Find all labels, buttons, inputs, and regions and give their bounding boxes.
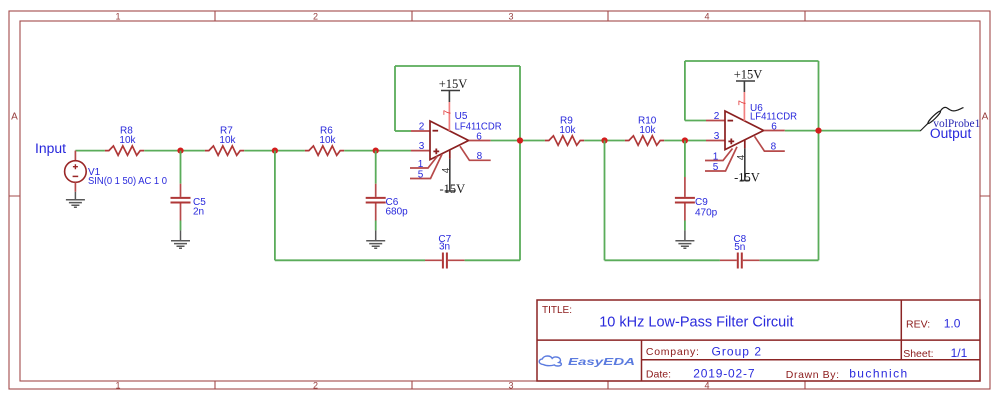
svg-text:Output: Output [930,126,972,141]
svg-text:Company:: Company: [646,346,699,358]
svg-text:Input: Input [35,141,66,156]
svg-text:EasyEDA: EasyEDA [568,356,635,368]
ground under C9 [675,230,694,248]
resistor R7 [205,146,244,155]
U5 pin4 lead [449,150,451,159]
frame row ticks sides [9,195,990,197]
C5 top lead [180,184,182,197]
C9 bottom lead [684,204,686,221]
wire V1 top stub [74,151,76,161]
U5 pin7 lead [448,102,450,131]
svg-text:1: 1 [713,151,719,162]
svg-text:3: 3 [714,131,720,142]
svg-text:5: 5 [713,162,719,173]
resistor R10 [625,136,664,145]
svg-text:470p: 470p [695,208,718,219]
U5 pin1 stub [410,156,438,168]
svg-text:buchnich: buchnich [849,367,907,381]
junction node4 [517,137,523,143]
U6 pin4 lead [744,140,746,148]
U6 plus symbol [728,139,734,145]
C5 bottom lead [180,204,182,221]
capacitor C7 [443,253,447,269]
frame column ticks top [215,11,805,21]
svg-text:7: 7 [442,109,453,115]
svg-text:5: 5 [418,169,424,180]
svg-text:+15V: +15V [734,68,763,82]
svg-text:2019-02-7: 2019-02-7 [693,367,755,381]
EasyEDA logo cloud [539,356,561,366]
capacitor C6 [366,198,386,203]
svg-text:Sheet:: Sheet: [903,348,933,360]
U6 +15V power symbol [736,81,755,92]
U6 feedback wire right vertical [818,61,820,260]
op-amp U6 triangle [725,111,764,150]
U6 pin1 stub [705,149,733,161]
svg-text:10k: 10k [559,125,576,136]
svg-text:Drawn By:: Drawn By: [786,369,839,381]
svg-text:2n: 2n [193,207,204,218]
C6 top lead [375,184,377,197]
wire pin2 U6 [685,120,706,122]
frame column ticks bottom [215,381,805,389]
resistor R8 [105,146,144,155]
resistor R9 [545,136,584,145]
ground under C5 [171,230,190,248]
svg-text:5n: 5n [734,242,745,253]
C9 top lead [684,177,686,197]
U5 -15V power symbol [445,159,455,191]
svg-text:8: 8 [477,151,483,162]
svg-text:10k: 10k [639,125,656,136]
svg-text:10k: 10k [219,135,236,146]
svg-text:2: 2 [313,381,318,391]
svg-text:REV:: REV: [906,318,930,330]
capacitor C8 [738,253,742,269]
wire C9 to ground [684,221,686,231]
C6 bottom lead [375,204,377,221]
junction node7 output [815,128,821,134]
svg-text:2: 2 [714,111,720,122]
svg-text:3: 3 [508,381,513,391]
svg-text:Date:: Date: [646,369,671,381]
U6 pin2 stub [706,120,725,122]
U5 feedback bottom wire left segment [275,259,425,261]
junction node5 [601,137,607,143]
svg-text:10k: 10k [119,135,136,146]
U6 pin5 stub [705,147,737,171]
U5 pin3 stub [411,150,430,152]
U5 pin8 stub [460,146,491,160]
capacitor C8 leads [720,259,760,261]
title block outline [537,300,980,381]
wire U6 output to probe [785,130,921,132]
U5 pin5 stub [410,154,442,178]
U5 minus symbol [433,130,439,132]
U6 pin8 stub [755,136,785,151]
wire node1 down to C5 [180,151,182,184]
wire U5 output to node4 [491,140,545,142]
wire R7 to node2 [244,150,305,152]
svg-text:10 kHz Low-Pass Filter Circuit: 10 kHz Low-Pass Filter Circuit [599,314,794,331]
svg-text:3: 3 [508,12,513,22]
U5 output stub pin6 [469,140,491,142]
wire input corner to R8 [75,150,105,152]
svg-text:3: 3 [419,141,425,152]
svg-text:A: A [11,112,18,123]
svg-text:C9: C9 [695,197,708,208]
capacitor C9 [675,198,695,203]
U5 plus symbol [433,149,439,155]
svg-text:-15V: -15V [734,171,760,185]
svg-text:7: 7 [738,100,749,106]
op-amp U5 triangle [430,121,469,160]
U6 output stub pin6 [764,130,785,132]
wire R9 to node5 [584,140,625,142]
U6 feedback bottom wire left segment [605,259,720,261]
svg-text:3n: 3n [439,242,450,253]
junction node1 [177,148,183,154]
svg-text:Group 2: Group 2 [712,345,762,359]
resistor R6 [305,146,344,155]
wire C6 to ground [375,221,377,231]
junction node6 [682,137,688,143]
svg-text:1: 1 [418,159,424,170]
svg-text:2: 2 [313,12,318,22]
svg-text:10k: 10k [319,135,336,146]
U6 feedback wire top [685,60,819,62]
U5 feedback bottom wire right segment [465,259,520,261]
wire node6 down to C9 [684,141,686,178]
svg-text:LF411CDR: LF411CDR [750,111,797,122]
U5 pin2 stub [411,130,430,132]
wire node5 down to feedback bottom 2 [604,141,606,261]
U6 minus symbol [728,120,734,122]
svg-text:2: 2 [419,122,425,133]
V1 bottom stub [74,182,76,192]
wire pin2 U5 [395,130,411,132]
wire R8 to node1 [144,150,205,152]
U5 feedback wire top [395,65,520,67]
svg-text:-15V: -15V [439,182,465,196]
svg-text:SIN(0 1 50) AC 1 0: SIN(0 1 50) AC 1 0 [88,176,167,187]
svg-text:680p: 680p [386,207,409,218]
svg-text:1/1: 1/1 [951,346,968,360]
voltage source V1 [65,161,87,183]
svg-text:A: A [982,112,989,123]
svg-text:6: 6 [476,131,482,142]
wire R10 to node6 and U6 pin3 [664,140,706,142]
junction node3 [373,148,379,154]
svg-text:LF411CDR: LF411CDR [455,121,502,132]
capacitor C7 leads [425,259,465,261]
wire node3 down to C6 [375,151,377,184]
svg-text:4: 4 [704,381,709,391]
svg-text:+15V: +15V [439,77,468,91]
wire C5 to ground [180,221,182,231]
U5 feedback wire left vertical [394,66,396,131]
svg-text:1: 1 [115,381,120,391]
ground under V1 [66,192,85,208]
wire node2 down to feedback bottom [274,151,276,261]
probe tip lead [920,123,928,131]
U6 feedback bottom wire right segment [760,259,819,261]
U6 -15V power symbol [740,148,750,180]
U5 +15V power symbol [441,91,460,103]
probe needle [927,110,942,124]
U6 feedback wire left vertical [684,61,686,121]
ground under C6 [366,230,385,248]
svg-text:1: 1 [115,12,120,22]
wire R6 to node3 and U5 pin3 [344,150,411,152]
junction node2 [272,148,278,154]
U5 feedback wire right vertical [519,66,521,260]
svg-text:1.0: 1.0 [944,316,961,330]
svg-text:4: 4 [704,12,709,22]
U6 pin3 stub [706,140,725,142]
svg-text:8: 8 [771,142,777,153]
svg-text:TITLE:: TITLE: [542,305,572,316]
svg-text:6: 6 [771,121,777,132]
U6 pin7 lead [743,92,745,121]
capacitor C5 [171,198,191,203]
probe cable squiggle [940,107,963,111]
